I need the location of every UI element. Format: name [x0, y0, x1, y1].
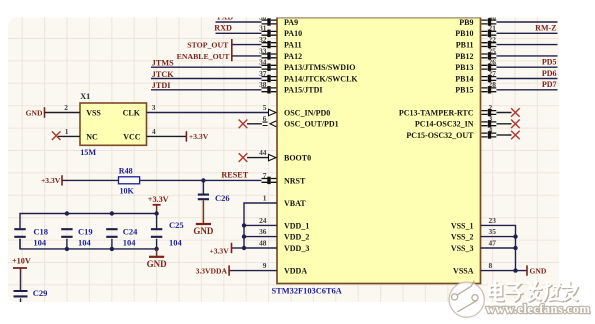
- svg-text:GND: GND: [26, 108, 43, 117]
- svg-text:RM-Z: RM-Z: [535, 24, 556, 33]
- svg-text:NRST: NRST: [284, 176, 306, 185]
- svg-text:PC14-OSC32_IN: PC14-OSC32_IN: [415, 120, 474, 129]
- wire PC15 stub with no-connect X: [497, 131, 520, 140]
- power +3.3V at crystal VCC pin 4: [147, 127, 209, 142]
- pin 9 VDDA (left): [263, 261, 308, 276]
- ground GND below C26: [193, 200, 214, 236]
- wire OSC_OUT stub with no-connect X: [239, 120, 262, 129]
- svg-text:48: 48: [259, 238, 267, 247]
- capacitor C25 104: [151, 220, 184, 249]
- pin 38 PA15/JTDI (left): [259, 80, 322, 95]
- svg-text:PB11: PB11: [456, 41, 474, 50]
- svg-text:35: 35: [489, 227, 497, 236]
- watermark chinese characters 电子发烧友: [491, 283, 579, 302]
- resistor R48 10K: [119, 166, 140, 195]
- svg-text:R48: R48: [119, 166, 133, 175]
- svg-text:PA15/JTDI: PA15/JTDI: [284, 86, 323, 95]
- wire RESET net R48 to NRST: [140, 171, 262, 181]
- pin 5 OSC_IN/PD0 (left): [263, 103, 330, 118]
- junction VSS_2: [513, 234, 517, 238]
- svg-text:104: 104: [123, 238, 137, 248]
- svg-text:24: 24: [259, 216, 267, 225]
- node RXD wire to PA10: [214, 24, 261, 34]
- svg-text:2: 2: [64, 103, 68, 112]
- wire BOOT0 stub with no-connect X: [239, 153, 268, 162]
- wire PB9 to sheet edge: [497, 21, 558, 23]
- svg-text:ENABLE_OUT: ENABLE_OUT: [177, 52, 231, 61]
- junction VSSA: [513, 268, 517, 272]
- svg-text:PB15: PB15: [455, 86, 473, 95]
- svg-text:47: 47: [489, 238, 497, 247]
- svg-text:5: 5: [263, 103, 267, 112]
- svg-text:C18: C18: [33, 227, 48, 237]
- wire crystal CLK pin 3 to OSC_IN: [147, 103, 269, 113]
- wire decoupling cap bottom rail: [20, 239, 157, 249]
- pin 21 PB10 (right): [455, 24, 496, 39]
- ground GND at VSS bus: [527, 265, 547, 275]
- svg-text:C29: C29: [33, 288, 48, 298]
- wire PC13 stub with no-connect X: [497, 108, 520, 117]
- svg-text:+3.3V: +3.3V: [148, 195, 169, 204]
- svg-text:104: 104: [78, 238, 92, 248]
- pin 6 OSC_OUT/PD1 (left): [263, 114, 339, 129]
- svg-text:GND: GND: [530, 267, 547, 276]
- junction VSS_3: [513, 246, 517, 250]
- pin 8 VSSA (right): [453, 261, 492, 276]
- svg-text:JTDI: JTDI: [152, 81, 171, 90]
- pin 27 PB14 (right): [455, 69, 496, 84]
- pin 24 VDD_1 (left): [259, 216, 309, 231]
- wire PB11 to sheet edge: [497, 44, 558, 46]
- pin 3 PC14-OSC32_IN (right): [415, 114, 496, 129]
- svg-text:+10V: +10V: [12, 257, 31, 266]
- svg-text:PB14: PB14: [455, 74, 473, 83]
- node TXD wire to PA9: [216, 13, 262, 22]
- wire VSS ground bus: [481, 225, 528, 270]
- svg-text:JTMS: JTMS: [152, 59, 174, 68]
- svg-text:www.elecfans.com: www.elecfans.com: [486, 302, 590, 316]
- svg-text:104: 104: [169, 238, 183, 248]
- svg-text:C19: C19: [78, 227, 93, 237]
- pin 34 PA13/JTMS/SWDIO (left): [259, 58, 355, 73]
- pin 48 VDD_3 (left): [259, 238, 309, 253]
- svg-text:PC15-OSC32_OUT: PC15-OSC32_OUT: [406, 131, 474, 140]
- pin 2 PC13-TAMPER-RTC (right): [399, 103, 496, 118]
- crystal pin 1 NC with no-connect X: [52, 127, 80, 140]
- pin 25 PB12 (right): [455, 46, 496, 61]
- pin 4 PC15-OSC32_OUT (right): [406, 125, 496, 140]
- junction top rail C25: [154, 211, 158, 215]
- junction VDD_3: [242, 246, 246, 250]
- svg-text:VSS_3: VSS_3: [451, 244, 474, 253]
- junction bottom rail C24: [110, 247, 114, 251]
- node JTMS wire to PA13: [151, 59, 262, 68]
- svg-text:+3.3V: +3.3V: [209, 246, 229, 255]
- svg-text:X1: X1: [80, 92, 90, 101]
- pin 23 VSS_1 (right): [451, 216, 496, 231]
- svg-text:3: 3: [152, 103, 156, 112]
- junction bottom rail C19: [65, 247, 69, 251]
- svg-text:15M: 15M: [80, 148, 96, 157]
- power 3.3VDDA at VDDA pin: [196, 265, 277, 275]
- wire +3.3V to R48: [62, 179, 119, 181]
- svg-text:PB13: PB13: [455, 63, 473, 72]
- svg-text:PA12: PA12: [284, 52, 302, 61]
- pin 7 NRST (left): [262, 171, 307, 186]
- svg-text:PA13/JTMS/SWDIO: PA13/JTMS/SWDIO: [284, 63, 355, 72]
- pin 44 BOOT0 (left): [259, 148, 311, 163]
- svg-text:23: 23: [489, 216, 497, 225]
- svg-text:PB12: PB12: [455, 52, 473, 61]
- wire VBAT/VDD power bus: [244, 203, 277, 248]
- junction bottom rail C25: [154, 247, 158, 251]
- power +3.3V above decoupling caps: [148, 195, 169, 213]
- wire PC14 stub with no-connect X: [497, 120, 520, 129]
- svg-text:PC13-TAMPER-RTC: PC13-TAMPER-RTC: [399, 108, 474, 117]
- svg-text:VCC: VCC: [123, 133, 141, 142]
- svg-text:+3.3V: +3.3V: [189, 132, 209, 141]
- node ENABLE_OUT wire to PA12: [177, 52, 262, 61]
- junction top rail C24: [110, 211, 114, 215]
- svg-text:PA14/JTCK/SWCLK: PA14/JTCK/SWCLK: [284, 74, 358, 83]
- svg-text:VDD_1: VDD_1: [284, 221, 309, 230]
- svg-text:8: 8: [489, 261, 493, 270]
- ground GND below C25: [147, 249, 168, 269]
- svg-text:PA10: PA10: [284, 29, 302, 38]
- capacitor C26: [198, 180, 230, 202]
- pin 26 PB13 (right): [455, 58, 496, 73]
- svg-text:PD7: PD7: [542, 80, 557, 89]
- capacitor C29: [14, 288, 48, 302]
- wire PB12 to sheet edge: [497, 55, 558, 57]
- pin 37 PA14/JTCK/SWCLK (left): [259, 69, 358, 84]
- svg-text:VDD_3: VDD_3: [284, 244, 309, 253]
- svg-text:STOP_OUT: STOP_OUT: [187, 41, 229, 50]
- junction VDD_1: [242, 223, 246, 227]
- pin 32 PA11 (left): [259, 35, 302, 50]
- wire PB13 to sheet edge: [497, 58, 558, 68]
- capacitor C19 104: [61, 227, 92, 249]
- junction VDD_2: [242, 234, 246, 238]
- svg-text:RESET: RESET: [221, 171, 248, 180]
- capacitor C24 104: [106, 227, 138, 249]
- svg-text:CLK: CLK: [123, 108, 141, 117]
- svg-text:C25: C25: [169, 220, 184, 230]
- svg-text:1: 1: [65, 127, 69, 136]
- svg-text:1: 1: [263, 193, 267, 202]
- svg-text:4: 4: [152, 127, 156, 136]
- svg-text:GND: GND: [193, 226, 214, 236]
- svg-text:VDD_2: VDD_2: [284, 233, 309, 242]
- wire PB14 to sheet edge: [497, 69, 558, 79]
- pin 33 PA12 (left): [259, 46, 302, 61]
- svg-text:PB10: PB10: [455, 29, 473, 38]
- wire PB15 to sheet edge: [497, 80, 558, 90]
- svg-text:PB9: PB9: [459, 18, 473, 27]
- svg-text:VBAT: VBAT: [284, 199, 306, 208]
- svg-text:OSC_OUT/PD1: OSC_OUT/PD1: [284, 120, 339, 129]
- svg-text:PD6: PD6: [542, 69, 557, 78]
- power +3.3V feeding VDD bus: [209, 243, 244, 256]
- wire vertical bar joining PA11/PA12 stubs: [231, 39, 233, 61]
- svg-text:VSS_2: VSS_2: [451, 233, 474, 242]
- wire decoupling cap top rail: [20, 214, 157, 230]
- pin 30 PA9 (left): [259, 12, 298, 27]
- crystal oscillator X1 body 15M: [80, 92, 147, 157]
- ground GND at crystal VSS pin 2: [26, 103, 80, 118]
- capacitor C18 104: [14, 227, 48, 249]
- svg-text:+3.3V: +3.3V: [41, 176, 61, 185]
- svg-text:104: 104: [33, 238, 47, 248]
- svg-text:JTCK: JTCK: [152, 70, 174, 79]
- pin 31 PA10 (left): [259, 24, 302, 39]
- pin 22 PB11 (right): [456, 35, 497, 50]
- junction top rail C19: [65, 211, 69, 215]
- node JTCK wire to PA14: [151, 70, 262, 79]
- power +3.3V at reset resistor: [41, 175, 62, 185]
- svg-text:GND: GND: [147, 259, 168, 269]
- svg-text:9: 9: [263, 261, 267, 270]
- pin 46 PB9 (right): [459, 12, 496, 27]
- svg-text:BOOT0: BOOT0: [284, 154, 311, 163]
- junction node on RESET net: [201, 178, 205, 182]
- svg-text:RXD: RXD: [214, 24, 232, 33]
- svg-text:3.3VDDA: 3.3VDDA: [196, 267, 228, 276]
- svg-text:C26: C26: [215, 193, 230, 203]
- svg-text:PA11: PA11: [284, 41, 302, 50]
- node STOP_OUT wire to PA11: [187, 41, 261, 50]
- svg-text:STM32F103C6T6A: STM32F103C6T6A: [272, 287, 342, 296]
- pin 28 PB15 (right): [455, 80, 496, 95]
- svg-text:PA9: PA9: [284, 18, 298, 27]
- svg-text:VSSA: VSSA: [453, 267, 474, 276]
- logo elecfans disc: [449, 281, 484, 318]
- svg-text:VDDA: VDDA: [284, 267, 307, 276]
- svg-text:VSS: VSS: [86, 108, 101, 117]
- svg-text:C24: C24: [123, 227, 138, 237]
- power +10V: [12, 257, 31, 290]
- pin 35 VSS_2 (right): [451, 227, 496, 242]
- svg-text:PD5: PD5: [542, 58, 557, 67]
- svg-text:10K: 10K: [120, 187, 135, 196]
- svg-text:44: 44: [259, 148, 267, 157]
- node JTDI wire to PA15: [151, 81, 262, 90]
- svg-text:VSS_1: VSS_1: [451, 221, 474, 230]
- svg-text:36: 36: [259, 227, 267, 236]
- pin 47 VSS_3 (right): [451, 238, 496, 253]
- op-amp U1 microcontroller STM32F103C6T6A body: [272, 18, 481, 296]
- pin 1 VBAT (left): [263, 193, 307, 208]
- svg-text:NC: NC: [86, 133, 98, 142]
- pin 36 VDD_2 (left): [259, 227, 309, 242]
- svg-text:OSC_IN/PD0: OSC_IN/PD0: [284, 108, 330, 117]
- wire PB10 to sheet edge: [497, 24, 558, 34]
